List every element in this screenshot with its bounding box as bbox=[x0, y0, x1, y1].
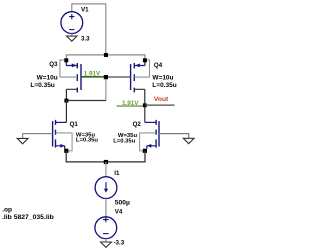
voltage source V1 bbox=[61, 12, 83, 36]
channel segments bbox=[76, 63, 78, 92]
svg-text:Q4: Q4 bbox=[154, 62, 163, 69]
body stub bbox=[56, 132, 67, 134]
source stub bbox=[134, 60, 145, 65]
gate bar bbox=[130, 64, 132, 90]
svg-text:I1: I1 bbox=[114, 170, 120, 177]
svg-text:V1: V1 bbox=[81, 6, 89, 13]
node Q2 source pin bbox=[143, 149, 147, 153]
source stub bbox=[147, 146, 156, 149]
wire top rail bbox=[66, 55, 145, 60]
I1 arrow head bbox=[104, 189, 108, 193]
ground at Q2 gate bbox=[183, 138, 194, 143]
transistor Q2 (NMOS right) bbox=[145, 120, 159, 149]
svg-text:Vout: Vout bbox=[154, 96, 169, 103]
wire Q1 gate to ground bbox=[23, 134, 53, 139]
svg-text:L=0.35u: L=0.35u bbox=[152, 82, 176, 89]
wire Q3 body strap bbox=[60, 60, 66, 77]
wire mirror horizontal bbox=[66, 100, 106, 102]
wire Q1 body strap bbox=[66, 133, 72, 151]
node Q1 source pin bbox=[64, 149, 68, 153]
svg-text:L=0.35u: L=0.35u bbox=[113, 139, 136, 145]
wire Q2 drain leg bbox=[144, 105, 146, 122]
svg-text:Q2: Q2 bbox=[133, 121, 142, 128]
channel segments bbox=[155, 120, 157, 148]
svg-text:.lib 5827_035.lib: .lib 5827_035.lib bbox=[2, 214, 54, 221]
node gate junction bbox=[104, 75, 108, 79]
svg-text:Q1: Q1 bbox=[70, 121, 79, 128]
body stub bbox=[60, 76, 77, 78]
drain stub bbox=[56, 121, 67, 123]
svg-text:W=10u: W=10u bbox=[37, 75, 58, 82]
Q4 source arrow bbox=[135, 64, 140, 68]
svg-text:W=10u: W=10u bbox=[152, 75, 173, 82]
wire Q4 body strap bbox=[145, 60, 150, 77]
channel segments bbox=[55, 120, 57, 148]
label 1.91V left bbox=[82, 71, 104, 78]
svg-text:-3.3: -3.3 bbox=[114, 239, 125, 246]
svg-text:L=0.35u: L=0.35u bbox=[30, 82, 54, 89]
source stub bbox=[66, 60, 77, 65]
Q4 drain stub bbox=[134, 89, 145, 105]
body stub bbox=[146, 132, 157, 134]
transistor Q1 (NMOS left) bbox=[53, 120, 67, 149]
channel segments bbox=[133, 63, 135, 92]
drain stub bbox=[145, 121, 156, 123]
wire I1 to V4 bbox=[105, 199, 107, 217]
node Q3 source pin bbox=[64, 58, 68, 62]
ground at Q1 gate bbox=[17, 138, 28, 143]
svg-text:L=0.35u: L=0.35u bbox=[76, 138, 99, 144]
node Q4 source pin bbox=[143, 58, 147, 62]
gate bar bbox=[158, 121, 160, 147]
ground under V1 bbox=[67, 36, 77, 41]
current source I1 bbox=[95, 177, 117, 199]
wire Vout stub bbox=[145, 104, 175, 106]
transistor Q3 (PMOS left) bbox=[60, 60, 81, 92]
source stub bbox=[56, 146, 65, 149]
Q3 drain stub bbox=[66, 89, 77, 100]
Q2 source arrow bbox=[147, 144, 151, 148]
transistor Q4 (PMOS right) bbox=[131, 60, 150, 92]
svg-text:V4: V4 bbox=[115, 209, 123, 216]
wire gate net Q3-Q4 bbox=[81, 76, 131, 78]
wire mirror riser bbox=[105, 77, 107, 101]
svg-text:3.3: 3.3 bbox=[81, 35, 90, 42]
label 1.91V right bbox=[117, 100, 144, 107]
node Vout junction bbox=[143, 103, 147, 107]
svg-text:.op: .op bbox=[2, 207, 12, 214]
wire tail to I1 bbox=[105, 162, 107, 177]
wire Q1 drain leg bbox=[65, 101, 67, 123]
Q1 source arrow bbox=[60, 144, 64, 148]
node left drain junction bbox=[64, 99, 68, 103]
voltage source V4 bbox=[95, 217, 117, 242]
wire tail left bbox=[65, 151, 67, 162]
svg-text:Q3: Q3 bbox=[49, 61, 58, 68]
node top-rail junction bbox=[104, 53, 108, 57]
wire tail rail bbox=[66, 161, 146, 163]
wire V1 top loop bbox=[72, 4, 106, 55]
body stub bbox=[134, 76, 149, 78]
wire Q2 gate to ground bbox=[159, 134, 189, 139]
Q3 source arrow bbox=[72, 64, 77, 68]
svg-text:500µ: 500µ bbox=[115, 200, 130, 207]
gate bar bbox=[80, 64, 82, 90]
gate bar bbox=[52, 121, 54, 147]
wire tail right bbox=[144, 151, 146, 162]
node tail junction bbox=[104, 160, 108, 164]
wire Q2 body strap bbox=[140, 133, 146, 151]
ground under V4 bbox=[101, 242, 112, 247]
